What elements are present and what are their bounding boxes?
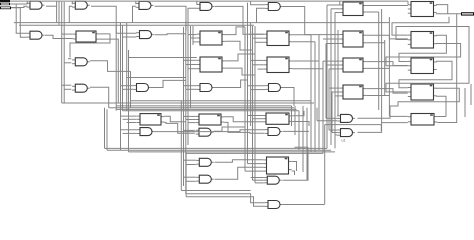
wire R2c in2 <box>123 25 137 37</box>
wire v in2 R2a <box>11 8 27 38</box>
wire L3a in2 <box>64 62 71 64</box>
wire A4 out2 <box>366 95 389 97</box>
wire C5 out <box>283 88 294 106</box>
and gate Gmid <box>265 128 283 136</box>
wire A2 out2 <box>366 42 385 44</box>
wire L4a out <box>90 87 109 107</box>
and gate T5 <box>265 3 283 11</box>
wire v378 <box>378 12 380 110</box>
wire v122 <box>122 37 124 111</box>
wire T2 out <box>91 6 136 33</box>
wire D2 out2 <box>224 122 264 133</box>
wire riser T4b <box>188 8 197 22</box>
wire R2c out <box>155 34 187 35</box>
box Cx4 <box>263 157 291 174</box>
wire v324 <box>324 125 326 205</box>
wire G340a in1 <box>336 115 339 117</box>
wire A3 out2 <box>366 67 389 69</box>
wire v64 <box>63 2 65 103</box>
input port a <box>0 0 10 2</box>
wire h57 <box>129 57 197 59</box>
wire v247 <box>247 3 249 164</box>
wire G340b in1 <box>329 129 337 131</box>
wire G280 in2 <box>186 197 265 207</box>
wire G267 in1 <box>251 177 264 179</box>
wire D1 f3 <box>127 122 137 124</box>
wire staple4a <box>390 88 459 116</box>
box A2 <box>340 31 366 47</box>
wire G267 in2 <box>253 179 264 181</box>
wire G340a out <box>358 116 408 118</box>
wire v126 <box>126 23 128 111</box>
wire p2 to T1 <box>10 3 27 5</box>
wire t307 <box>306 108 308 181</box>
wire t295 <box>294 106 296 135</box>
wire D1 out2 <box>164 122 195 133</box>
box Bx1 <box>197 31 225 45</box>
wire M13b out <box>214 127 246 131</box>
wire v245 <box>244 27 246 171</box>
wire T4 out <box>215 6 264 34</box>
wire v183 <box>183 27 185 186</box>
wire A2 f1 <box>319 34 340 36</box>
wire T3 out <box>155 6 187 30</box>
wire A3 f2 <box>326 64 340 66</box>
wire A3 f1 <box>323 60 340 62</box>
wire Bx1 out1 <box>225 27 245 35</box>
wire Bx2 f1 <box>184 59 197 61</box>
wire D2 f1 <box>184 115 196 117</box>
wire v186 low <box>185 152 187 197</box>
wire t315 <box>314 42 316 152</box>
wire C5 in2 <box>251 89 266 91</box>
and gate M13b <box>196 128 214 136</box>
wire B1 out1 <box>436 5 448 14</box>
wire M13b in1 <box>184 129 195 131</box>
wire A4 out1 <box>366 89 408 94</box>
wire G199b f2 <box>186 180 196 182</box>
wire C4 in1 <box>184 85 197 87</box>
and gate G199a <box>196 158 214 166</box>
and gate T4 <box>197 2 215 10</box>
box B2 <box>408 32 437 49</box>
wire L4a in2 <box>64 88 71 90</box>
box A1 <box>340 2 366 16</box>
and gate C3 <box>133 84 151 92</box>
wire Cx1 f3 <box>255 41 264 43</box>
wire Bx1 f2 <box>191 37 197 39</box>
wire G267 in3 <box>255 182 264 184</box>
wire staple3a <box>399 61 452 87</box>
wire bus y103 <box>62 102 314 104</box>
wire Cx3 out2 <box>292 122 309 127</box>
box Cx2 <box>264 57 292 73</box>
wire t335 <box>334 13 336 149</box>
wire bus y105.9 <box>116 105 291 107</box>
wire v250 <box>250 23 252 126</box>
wire G267 out <box>283 147 309 180</box>
wire Cx4 out1 <box>292 162 297 172</box>
wire Cx1 f1 <box>249 33 264 35</box>
wire G340b in3 <box>335 134 337 136</box>
wire D2 f3 <box>188 122 196 124</box>
wire B5 out1 <box>437 116 446 118</box>
wire t311 <box>310 35 312 152</box>
wire bus y22.6 <box>14 22 389 24</box>
and gate G199b <box>196 175 214 183</box>
wire t331 <box>330 9 332 145</box>
wire v188 <box>187 23 189 145</box>
wire v56 <box>56 1 58 23</box>
wire riser T5b <box>257 8 265 22</box>
wire G199b f1 <box>184 176 196 178</box>
wire Cx2 out2 <box>292 68 323 70</box>
wire staple1b <box>386 27 469 92</box>
wire G340a in2 <box>326 117 337 119</box>
wire Bx1 f3 <box>193 41 197 43</box>
wire bus y153.4 <box>186 152 323 154</box>
wire v in1 R2a <box>13 4 27 33</box>
wire G280 out <box>283 204 325 206</box>
wire Cx3 f1 <box>248 115 263 117</box>
wire riser T3b <box>133 6 136 22</box>
wire G199a f2 <box>186 164 196 166</box>
wire t329 <box>328 69 330 130</box>
wire v381 <box>381 9 383 123</box>
wire bus y148.4 <box>105 147 328 149</box>
wire Cx4 f4 <box>245 170 263 172</box>
wire riser T2b <box>69 6 72 22</box>
wire Cx2 f3 <box>258 68 264 70</box>
input port c <box>0 7 11 10</box>
wire v181 <box>180 101 182 191</box>
wire C3 out <box>151 80 186 87</box>
wire A4 f3 <box>335 95 340 97</box>
wire v465x <box>464 88 466 117</box>
wire A3 out1 <box>366 62 408 66</box>
wire L3a in1 <box>68 58 71 60</box>
wire T1 out <box>46 5 57 7</box>
wire drop T3a <box>135 1 137 4</box>
wire bus y150.2 <box>107 149 331 151</box>
wire t338 <box>337 30 339 116</box>
wire v471 <box>470 84 472 105</box>
wire A4 f2 <box>331 91 340 93</box>
wire G280 in1 <box>186 194 265 203</box>
wire M13a in1 <box>121 129 137 131</box>
wire drop T2a <box>71 1 73 4</box>
wire Cx2 out1 <box>292 60 319 62</box>
wire C3 in2 <box>123 88 133 90</box>
wire Bx2 out2 <box>225 68 255 75</box>
wire bus y109.4 <box>116 108 296 110</box>
and gate M13a <box>137 128 155 136</box>
wire drop A1 <box>339 1 341 5</box>
and gate T2 <box>72 1 90 9</box>
wire bus y147.2 <box>295 146 309 148</box>
wire v190 <box>190 26 192 108</box>
wire A1 f3 <box>335 12 340 14</box>
and gate G340b <box>337 129 355 137</box>
wire v252 <box>252 26 254 180</box>
wire Cx4 out2 <box>292 171 295 175</box>
wire drop T5a <box>251 1 265 5</box>
wire staple2a <box>399 35 446 61</box>
and gate T1 <box>27 1 45 9</box>
wire D2 out1 <box>224 117 263 122</box>
wire t291 <box>291 106 293 126</box>
box D2 <box>196 114 224 125</box>
wire v130 <box>130 71 132 107</box>
wire A2 f2 <box>323 38 340 40</box>
wire bus y110.7 <box>123 110 300 112</box>
box M1 <box>73 31 99 42</box>
and gate C5 <box>265 84 283 92</box>
wire v61 <box>61 2 63 103</box>
wire t326 <box>325 44 327 119</box>
wire B5 under <box>325 125 382 131</box>
and gate L4a <box>72 84 90 92</box>
wire staple1b-left <box>396 27 408 40</box>
wire M13a out <box>155 130 265 132</box>
wire D1 f1 <box>121 115 137 117</box>
wire drop T4a <box>196 1 198 5</box>
wire bus y100.8 <box>131 100 312 102</box>
wire Bx1 out2 <box>225 41 252 50</box>
wire bus y107.7 <box>109 107 294 109</box>
wire M13a in2 <box>123 132 137 134</box>
wire v255 <box>254 26 256 183</box>
wire Bx1 f1 <box>188 34 197 36</box>
wire B5 out2 <box>437 14 457 123</box>
wire R2a out <box>45 35 73 38</box>
wire A4 f1 <box>329 87 340 89</box>
wire vL107 <box>106 109 108 150</box>
wire t303 <box>302 106 304 172</box>
wire A1 out2 <box>366 11 379 13</box>
wire C5 in1 <box>248 85 266 87</box>
wire Cx1 out2 <box>292 41 315 43</box>
wire G340a in3 <box>317 120 337 122</box>
wire h77 <box>127 77 186 79</box>
wire Gmid out <box>283 130 309 132</box>
wire G340b out <box>358 123 408 133</box>
wire A2 f3 <box>326 43 340 45</box>
box Cx3 <box>263 113 292 124</box>
box Bx2 <box>197 57 225 72</box>
wire Cx3 f2 <box>253 118 263 120</box>
and gate T3 <box>136 1 154 9</box>
box D1 <box>137 114 164 125</box>
wire Cx2 f1 <box>251 59 264 61</box>
wire Bx2 f2 <box>186 64 197 66</box>
wire A1 f2 <box>331 8 340 10</box>
wire G199a out <box>215 160 264 162</box>
wire T5 out <box>283 7 319 35</box>
box B4 <box>408 84 437 100</box>
and gate L3a <box>72 58 90 66</box>
wire staple2b <box>386 44 461 66</box>
wire Bx2 out1 <box>225 54 255 61</box>
wire v193 <box>192 26 194 45</box>
wire A1 f1 <box>327 4 340 6</box>
wire M1 out2 <box>99 39 118 103</box>
wire v384 <box>384 40 386 95</box>
wire C3 in1 <box>121 85 133 87</box>
wire staple4b <box>436 96 446 116</box>
box A4 <box>340 85 366 99</box>
wire drop B1 <box>407 1 409 5</box>
wire G199b out <box>215 167 264 179</box>
wire t323 <box>322 61 324 153</box>
wire t332 <box>331 92 333 133</box>
wire Cx2 f2 <box>253 64 264 66</box>
wire p3 to T1 <box>11 6 27 7</box>
wire bus y25.2 <box>19 24 254 26</box>
wire t317 <box>316 108 318 121</box>
wire Cx3 out1 <box>292 111 304 116</box>
wire staple1a <box>392 17 449 35</box>
wire A2 out1 <box>366 35 408 39</box>
wire top bus y1 <box>10 0 408 2</box>
wire Cx1 f2 <box>253 37 264 39</box>
and gate R2c <box>136 31 154 39</box>
wire B1 out2 to port <box>436 13 461 15</box>
box A3 <box>340 58 366 72</box>
box B5 <box>408 114 437 126</box>
and gate R2a <box>27 31 45 39</box>
and gate G267 <box>264 176 282 184</box>
and gate C4 <box>197 84 215 92</box>
wire G199a f1 <box>184 159 196 161</box>
wire M1 in top <box>62 33 73 35</box>
output port o <box>461 12 474 15</box>
input port b <box>0 3 10 5</box>
wire C4 in2 <box>186 88 197 90</box>
svg-text:u1: u1 <box>342 139 346 143</box>
wire M1 out1 <box>70 34 110 58</box>
wire Bx2 f3 <box>188 68 197 70</box>
wire G340b in2 <box>332 132 337 134</box>
and gate G340a <box>337 114 355 122</box>
wire drop T1a <box>26 1 28 4</box>
wire v116 <box>115 25 117 111</box>
wire vL104 <box>104 108 106 149</box>
wire v185 <box>185 21 187 194</box>
wire D2 f2 <box>186 119 196 121</box>
wire D1 f2 <box>123 118 137 120</box>
wire L3a out <box>90 61 131 72</box>
wire L4a in1 <box>62 84 72 86</box>
box B3 <box>408 58 437 74</box>
wire A3 f3 <box>329 68 340 70</box>
wire v389 <box>388 17 390 116</box>
wire h190 <box>181 190 250 192</box>
wire t319 <box>318 35 320 151</box>
wire t299 <box>298 111 300 151</box>
and gate G280 <box>265 201 283 209</box>
wire A1 out1 <box>366 5 408 7</box>
wire C4 out <box>215 80 249 88</box>
wire v59 <box>58 1 60 25</box>
wire Cx4 f2 <box>248 163 264 165</box>
wire Cx1 out1 <box>292 34 311 36</box>
wire t327 <box>326 5 328 148</box>
box B1 <box>408 2 437 17</box>
box Cx1 <box>264 31 292 46</box>
wire bus y151.9 <box>129 151 336 153</box>
wire v120 <box>120 23 122 151</box>
wire D1 out1 <box>164 116 186 122</box>
wire v128 <box>128 50 130 152</box>
